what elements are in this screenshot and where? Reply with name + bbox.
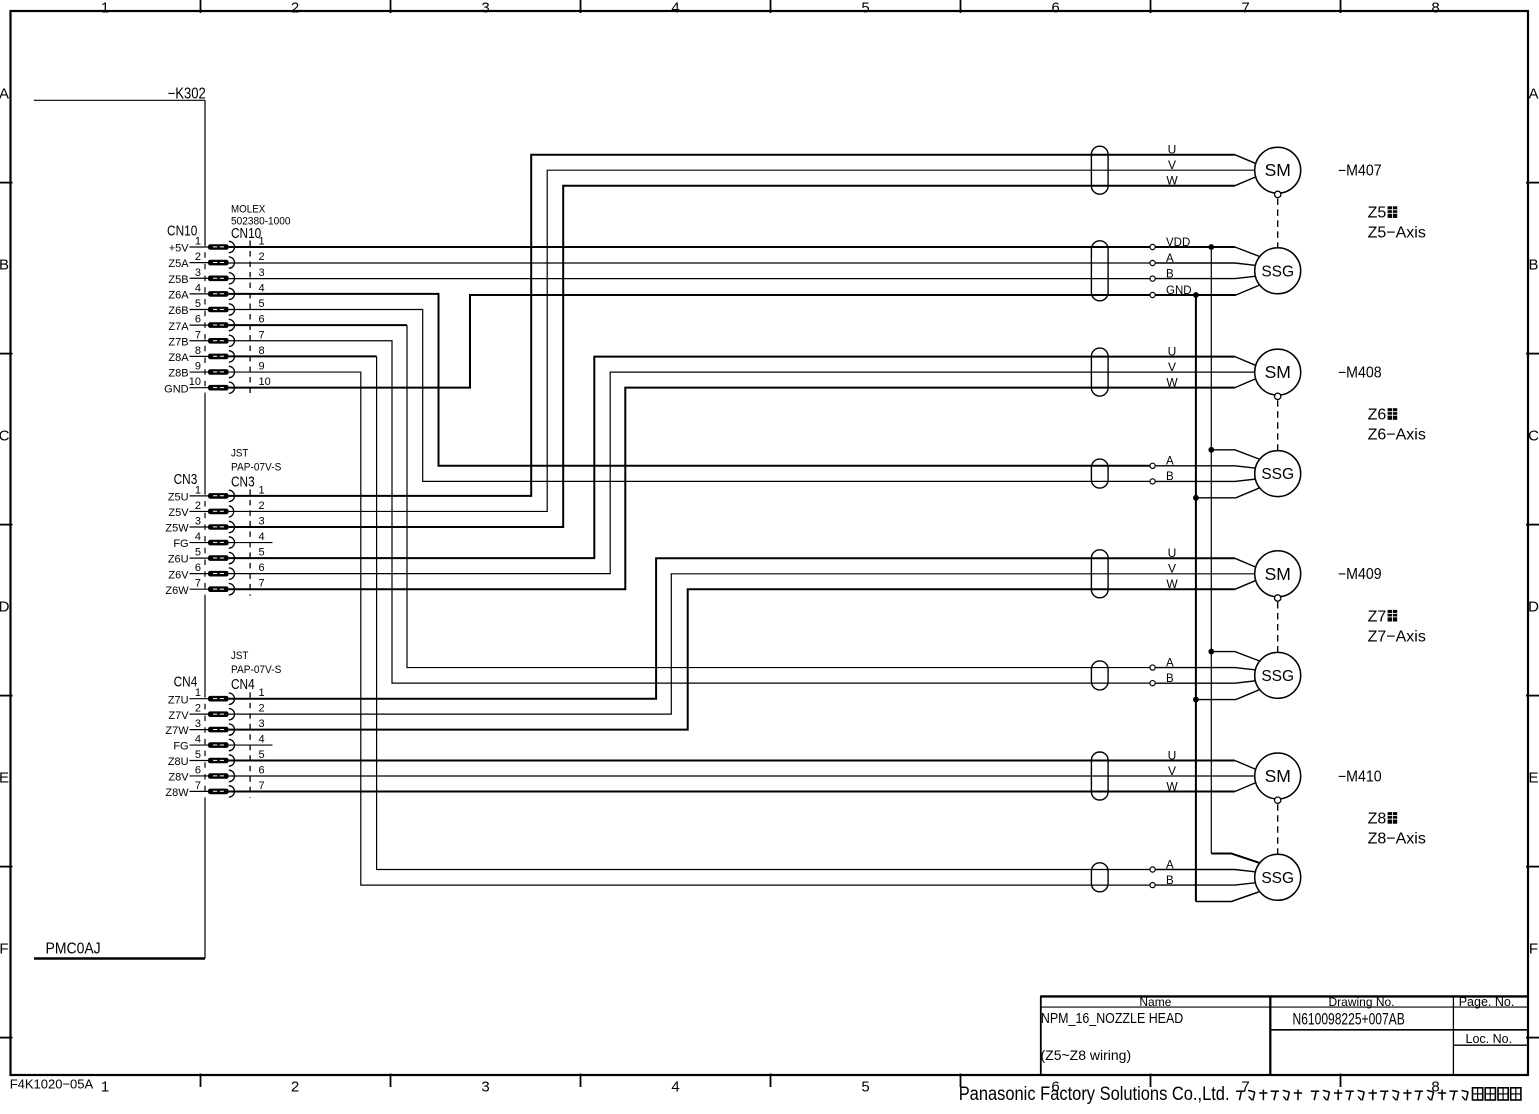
svg-text:Z8−Axis: Z8−Axis [1368,831,1426,848]
ferrite core on Z6 encoder cable [1091,459,1108,488]
svg-text:D: D [0,599,10,616]
pin 7 (Z7B) of CN10 [168,329,264,348]
svg-text:5: 5 [861,0,869,17]
svg-text:Z8A: Z8A [168,352,189,364]
driver board -K302 [34,85,206,958]
svg-text:B: B [1166,471,1174,483]
svg-text:3: 3 [195,267,201,279]
terminal A of Z8 encoder cable [1150,859,1174,872]
svg-text:CN10: CN10 [231,225,261,242]
svg-text:10: 10 [259,376,271,388]
svg-text:−M409: −M409 [1338,567,1382,584]
svg-text:1: 1 [195,484,201,496]
wire GND: CN10-10 to Z5 SSG GND terminal [229,295,1151,388]
wire Z5V: CN3-2 to SM -M407 V [229,170,1235,511]
svg-text:2: 2 [259,500,265,512]
encoder SSG Z6 [1255,451,1301,497]
svg-text:N610098225+007AB: N610098225+007AB [1293,1011,1405,1029]
pin 1 (+5V) of CN10 [169,236,265,255]
svg-text:Z8B: Z8B [168,368,188,380]
svg-text:SM: SM [1265,160,1291,180]
wire Z7W: CN4-3 to SM -M409 W [229,589,1235,729]
label -M407 [1338,163,1382,180]
svg-text:A: A [1166,657,1174,669]
pin 6 (Z8V) of CN4 [168,764,264,783]
wire FG stub of CN4-4 [229,744,273,746]
svg-text:5: 5 [259,547,265,559]
motor SM -M410 (Z8 axis) [1255,753,1301,799]
pin 2 (Z5V) of CN3 [168,500,264,519]
svg-text:Drawing No.: Drawing No. [1328,995,1394,1009]
svg-text:+5V: +5V [169,243,190,255]
svg-text:Z7B: Z7B [168,336,188,348]
svg-text:V: V [1168,360,1176,374]
svg-text:Page. No.: Page. No. [1459,995,1515,1009]
wire VDD bus branch to Z6 SSG [1208,447,1259,459]
encoder terminal circle at SM Z8 bottom [1275,797,1281,803]
svg-text:PMC0AJ: PMC0AJ [46,940,101,958]
svg-text:C: C [0,428,10,445]
svg-text:1: 1 [195,687,201,699]
wire Z7V: CN4-2 to SM -M409 V [229,574,1235,714]
wire GND bus end corner into Z8 SSG [1196,892,1259,902]
svg-text:Z6B: Z6B [168,305,188,317]
svg-text:1: 1 [259,484,265,496]
svg-text:SSG: SSG [1261,466,1294,483]
svg-text:4: 4 [259,734,265,746]
encoder SSG Z7 [1255,652,1301,698]
svg-text:6: 6 [195,562,201,574]
svg-text:B: B [1166,875,1174,887]
label Z5 axis (Z5&#36600; / Z5-Axis) [1368,205,1426,242]
svg-text:5: 5 [861,1079,869,1096]
svg-text:CN3: CN3 [174,471,198,488]
terminal VDD of Z5 encoder cable [1150,237,1190,250]
motor SM -M407 (Z5 axis) [1255,147,1301,193]
wire VDD bus end corner into Z8 SSG [1211,854,1259,863]
terminal B of Z7 encoder cable [1150,673,1174,686]
svg-text:2: 2 [259,703,265,715]
svg-text:VDD: VDD [1166,237,1190,249]
wire W diagonal into SM Z7 [1235,580,1257,589]
wire Z5 SSG VDD terminal to SSG [1155,247,1259,256]
svg-text:3: 3 [481,1079,489,1096]
svg-text:U: U [1168,143,1177,157]
svg-text:Z6W: Z6W [165,585,189,597]
svg-text:4: 4 [259,531,265,543]
wire Z8W: CN4-7 to SM -M410 W [229,791,1235,793]
svg-text:SSG: SSG [1261,263,1294,280]
svg-text:5: 5 [195,749,201,761]
pin 6 (Z6V) of CN3 [168,562,264,581]
junction GND bus tap Z5 [1193,292,1199,298]
connector CN4 housing dashed line [249,692,251,798]
svg-text:6: 6 [195,314,201,326]
pin 1 (Z7U) of CN4 [168,687,265,706]
pin 9 (Z8B) of CN10 [168,361,264,380]
svg-text:3: 3 [259,516,265,528]
pin 6 (Z7A) of CN10 [168,314,264,333]
labels U V W for Z5 motor [1166,143,1178,188]
ferrite core on Z5 motor cable [1091,146,1108,194]
svg-text:F: F [1529,941,1538,958]
svg-text:3: 3 [259,718,265,730]
terminal A of Z6 encoder cable [1150,456,1174,469]
wire W diagonal into SM Z5 [1235,177,1257,186]
svg-text:SM: SM [1265,564,1291,584]
pin 10 (GND) of CN10 [164,376,271,395]
terminal GND of Z5 encoder cable [1150,285,1192,298]
wire Z5U: CN3-1 to SM -M407 U [229,155,1235,496]
svg-text:A: A [1166,859,1174,871]
encoder SSG Z8 [1255,854,1301,900]
svg-text:U: U [1168,748,1177,762]
svg-text:A: A [1166,253,1174,265]
svg-text:W: W [1166,779,1178,793]
svg-text:CN4: CN4 [231,676,255,693]
junction VDD bus tap Z5 [1208,244,1214,250]
svg-text:7: 7 [1241,0,1249,17]
svg-text:4: 4 [671,1079,679,1096]
svg-text:Name: Name [1139,995,1171,1009]
wire Z6A: CN10-4 to Z6 SSG A terminal [229,294,1151,466]
svg-text:Z7U: Z7U [168,694,189,706]
svg-text:B: B [1528,257,1538,274]
svg-text:6: 6 [259,562,265,574]
ferrite core on Z5 encoder cable [1091,241,1108,301]
svg-text:Z6: Z6 [1368,407,1387,424]
svg-text:E: E [1528,770,1538,787]
svg-text:4: 4 [195,734,201,746]
wire U diagonal into SM Z7 [1235,558,1257,567]
wire W diagonal into SM Z6 [1235,379,1257,388]
title block [1040,996,1528,1076]
svg-text:Z7: Z7 [1368,608,1387,625]
svg-text:5: 5 [259,749,265,761]
svg-text:Z6V: Z6V [168,569,189,581]
encoder terminal circle at SM Z5 bottom [1275,191,1281,197]
pin 7 (Z8W) of CN4 [165,780,264,799]
svg-text:CN3: CN3 [231,473,255,490]
encoder terminal circle at SM Z6 bottom [1275,393,1281,399]
svg-text:2: 2 [195,703,201,715]
wire U diagonal into SM Z8 [1235,761,1257,770]
wire Z7A: CN10-6 to Z7 SSG A terminal [229,325,1151,667]
labels U V W for Z8 motor [1166,748,1178,793]
svg-text:5: 5 [195,298,201,310]
pin 2 (Z5A) of CN10 [168,251,264,270]
svg-text:U: U [1168,344,1177,358]
svg-text:C: C [1528,428,1539,445]
svg-text:7: 7 [1241,1079,1249,1096]
drawing number F4K1020-05A [10,1076,94,1091]
node PMC0AJ [34,940,205,959]
svg-text:1: 1 [259,236,265,248]
svg-text:JST: JST [231,650,249,662]
svg-text:B: B [1166,673,1174,685]
svg-text:1: 1 [195,236,201,248]
motor SM -M408 (Z6 axis) [1255,349,1301,395]
svg-text:4: 4 [195,282,201,294]
wire FG stub of CN3-4 [229,542,273,544]
svg-text:W: W [1166,375,1178,389]
svg-text:Panasonic Factory Solutions Co: Panasonic Factory Solutions Co.,Ltd. [959,1083,1230,1104]
svg-text:4: 4 [259,282,265,294]
svg-text:F4K1020−05A: F4K1020−05A [10,1076,94,1091]
label Z8 axis (Z8&#36600; / Z8-Axis) [1368,811,1426,848]
svg-text:GND: GND [1166,285,1192,297]
wire Z8A: CN10-8 to Z8 SSG A terminal [229,356,1151,869]
svg-text:FG: FG [173,538,188,550]
pin 1 (Z5U) of CN3 [168,484,265,503]
GND bus [1195,295,1197,902]
svg-text:F: F [0,941,9,958]
svg-text:9: 9 [195,361,201,373]
wire Z5 SSG B terminal into SSG [1155,276,1256,278]
svg-text:1: 1 [101,0,109,17]
svg-text:SSG: SSG [1261,668,1294,685]
svg-text:B: B [0,257,9,274]
ferrite core on Z6 motor cable [1091,348,1108,396]
wire +5V: CN10-1 to Z5 SSG VDD terminal [229,246,1151,248]
wire Z5 SSG GND terminal to SSG [1155,285,1259,295]
terminal B of Z6 encoder cable [1150,471,1174,484]
svg-text:V: V [1168,158,1176,172]
svg-text:5: 5 [195,547,201,559]
wire Z5W: CN3-3 to SM -M407 W [229,186,1235,527]
svg-text:Z8V: Z8V [168,772,189,784]
ferrite core on Z8 encoder cable [1091,863,1108,892]
wire Z7U: CN4-1 to SM -M409 U [229,558,1235,698]
svg-text:6: 6 [1051,0,1059,17]
svg-text:6: 6 [195,764,201,776]
svg-text:7: 7 [195,329,201,341]
svg-text:FG: FG [173,741,188,753]
wire Z6U: CN3-5 to SM -M408 U [229,357,1235,558]
svg-text:4: 4 [195,531,201,543]
svg-text:SM: SM [1265,362,1291,382]
wire Z6W: CN3-7 to SM -M408 W [229,388,1235,590]
wire U diagonal into SM Z5 [1235,155,1257,164]
svg-text:A: A [1528,86,1538,103]
wire Z8 SSG B terminal into SSG [1155,883,1256,885]
svg-text:Z5U: Z5U [168,492,189,504]
connector CN10 header labels [167,204,291,241]
connector CN10 housing dashed line [249,241,251,395]
ferrite core on Z7 motor cable [1091,550,1108,598]
svg-text:Loc. No.: Loc. No. [1466,1032,1513,1046]
svg-text:7: 7 [259,780,265,792]
svg-text:6: 6 [259,764,265,776]
label Z7 axis (Z7&#36600; / Z7-Axis) [1368,608,1426,645]
encoder terminal circle at SM Z7 bottom [1275,595,1281,601]
encoder SSG Z5 [1255,248,1301,294]
svg-text:−M410: −M410 [1338,769,1382,786]
svg-text:3: 3 [195,516,201,528]
svg-text:Z7A: Z7A [168,321,189,333]
wire V into SM Z5 [1235,169,1256,171]
pin 5 (Z8U) of CN4 [168,749,265,768]
svg-text:8: 8 [259,345,265,357]
wire Z7 SSG A terminal into SSG [1155,668,1256,670]
svg-text:7: 7 [195,780,201,792]
wire Z6V: CN3-6 to SM -M408 V [229,372,1235,574]
wire Z8U: CN4-5 to SM -M410 U [229,760,1235,762]
svg-text:JST: JST [231,448,249,460]
svg-text:9: 9 [259,361,265,373]
svg-text:Z5: Z5 [1368,205,1387,222]
svg-text:Z8W: Z8W [165,787,189,799]
connector CN4 header labels [174,650,282,692]
wire GND bus branch to Z7 SSG [1193,690,1259,702]
svg-text:NPM_16_NOZZLE HEAD: NPM_16_NOZZLE HEAD [1041,1010,1183,1026]
svg-text:2: 2 [291,0,299,17]
svg-text:−M407: −M407 [1338,163,1382,180]
svg-text:Z7−Axis: Z7−Axis [1368,628,1426,645]
svg-text:10: 10 [189,376,201,388]
wire Z7 SSG B terminal into SSG [1155,681,1256,683]
pin 5 (Z6U) of CN3 [168,547,265,566]
pin 4 (Z6A) of CN10 [168,282,264,301]
svg-text:A: A [0,86,9,103]
wire Z6 SSG A terminal into SSG [1155,466,1256,468]
ferrite core on Z7 encoder cable [1091,661,1108,690]
svg-text:3: 3 [259,267,265,279]
svg-text:2: 2 [291,1079,299,1096]
pin 3 (Z5W) of CN3 [165,516,264,535]
svg-text:3: 3 [481,0,489,17]
svg-text:W: W [1166,174,1178,188]
svg-text:2: 2 [259,251,265,263]
company name footer [959,1083,1521,1104]
pin 7 (Z6W) of CN3 [165,578,264,597]
label Z6 axis (Z6&#36600; / Z6-Axis) [1368,407,1426,444]
svg-text:(Z5~Z8 wiring): (Z5~Z8 wiring) [1041,1047,1132,1063]
svg-text:Z5A: Z5A [168,258,189,270]
dashed shaft link SM to SSG Z7 [1277,602,1279,652]
wire GND bus branch to Z6 SSG [1193,488,1259,500]
svg-text:Z5B: Z5B [168,274,188,286]
terminal A of Z7 encoder cable [1150,657,1174,670]
wire Z6B: CN10-5 to Z6 SSG B terminal [229,310,1151,482]
svg-text:GND: GND [164,383,189,395]
svg-text:Z6A: Z6A [168,289,189,301]
svg-text:Z5−Axis: Z5−Axis [1368,225,1426,242]
svg-text:−M408: −M408 [1338,365,1382,382]
svg-text:SSG: SSG [1261,870,1294,887]
wire U diagonal into SM Z6 [1235,357,1257,366]
svg-text:MOLEX: MOLEX [231,204,265,216]
wire V into SM Z7 [1235,573,1256,575]
svg-text:1: 1 [259,687,265,699]
wire Z8 SSG A terminal into SSG [1155,870,1256,872]
svg-text:7: 7 [195,578,201,590]
wire Z5B: CN10-3 to Z5 SSG B terminal [229,278,1151,280]
svg-text:Z8U: Z8U [168,756,189,768]
pin 2 (Z7V) of CN4 [168,703,264,722]
wire Z6 SSG B terminal into SSG [1155,479,1256,481]
svg-text:W: W [1166,577,1178,591]
svg-text:2: 2 [195,500,201,512]
connector CN3 housing dashed line [249,489,251,595]
VDD bus (+5V distribution) [1210,247,1212,854]
label -M410 [1338,769,1382,786]
svg-text:5: 5 [259,298,265,310]
svg-text:Z5V: Z5V [168,507,189,519]
title block texts [1041,995,1515,1063]
svg-text:Z8: Z8 [1368,811,1387,828]
pin 8 (Z8A) of CN10 [168,345,264,364]
connector CN3 header labels [174,448,282,490]
wire Z8B: CN10-9 to Z8 SSG B terminal [229,372,1151,885]
svg-text:PAP-07V-S: PAP-07V-S [231,664,281,676]
pin 4 (FG) of CN3 [173,531,264,550]
svg-text:B: B [1166,268,1174,280]
svg-text:Z5W: Z5W [165,523,189,535]
svg-text:PAP-07V-S: PAP-07V-S [231,461,281,473]
svg-text:CN10: CN10 [167,222,197,239]
label -M408 [1338,365,1382,382]
svg-text:7: 7 [259,578,265,590]
wire VDD bus branch to Z7 SSG [1208,649,1259,661]
labels U V W for Z7 motor [1166,546,1178,591]
svg-text:E: E [0,770,9,787]
wire Z5A: CN10-2 to Z5 SSG A terminal [229,262,1151,264]
wire W diagonal into SM Z8 [1235,782,1257,791]
svg-text:4: 4 [671,0,679,17]
svg-text:A: A [1166,456,1174,468]
svg-text:1: 1 [101,1079,109,1096]
svg-text:Z6U: Z6U [168,554,189,566]
svg-text:6: 6 [259,314,265,326]
pin 3 (Z7W) of CN4 [165,718,264,737]
pin 3 (Z5B) of CN10 [168,267,264,286]
svg-text:V: V [1168,764,1176,778]
svg-text:2: 2 [195,251,201,263]
terminal B of Z5 encoder cable [1150,268,1174,281]
svg-text:8: 8 [1431,0,1439,17]
dashed shaft link SM to SSG Z6 [1277,400,1279,450]
labels U V W for Z6 motor [1166,344,1178,389]
pin 5 (Z6B) of CN10 [168,298,264,317]
wire V into SM Z6 [1235,371,1256,373]
svg-text:D: D [1528,599,1539,616]
terminal A of Z5 encoder cable [1150,253,1174,266]
svg-text:SM: SM [1265,766,1291,786]
svg-text:3: 3 [195,718,201,730]
terminal B of Z8 encoder cable [1150,875,1174,888]
label -M409 [1338,567,1382,584]
svg-text:Z7V: Z7V [168,710,189,722]
wire Z8V: CN4-6 to SM -M410 V [229,775,1235,777]
svg-text:7: 7 [259,329,265,341]
svg-text:8: 8 [195,345,201,357]
dashed shaft link SM to SSG Z8 [1277,804,1279,854]
wire V into SM Z8 [1235,775,1256,777]
dashed shaft link SM to SSG Z5 [1277,198,1279,247]
svg-text:Z6−Axis: Z6−Axis [1368,427,1426,444]
svg-text:V: V [1168,562,1176,576]
pin 4 (FG) of CN4 [173,734,264,753]
wire Z5 SSG A terminal into SSG [1155,263,1256,265]
svg-text:Z7W: Z7W [165,725,189,737]
ferrite core on Z8 motor cable [1091,752,1108,800]
motor SM -M409 (Z7 axis) [1255,551,1301,597]
svg-text:U: U [1168,546,1177,560]
wire Z7B: CN10-7 to Z7 SSG B terminal [229,341,1151,683]
